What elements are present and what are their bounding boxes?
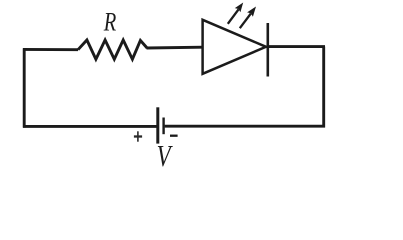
LED D1 triangle (anode) [203, 20, 266, 74]
wire right vertical [322, 47, 325, 128]
battery V short plate (negative) [162, 118, 164, 135]
svg-text:V: V [157, 139, 174, 173]
LED cathode bar [266, 23, 269, 77]
battery V long plate (positive) [156, 107, 159, 143]
svg-text:R: R [103, 8, 116, 37]
wire top-left segment [23, 48, 78, 51]
resistor R [78, 40, 147, 59]
wire bottom-right segment [165, 125, 325, 128]
battery plus label [134, 131, 142, 141]
wire left vertical [23, 48, 26, 127]
wire LED to top-right corner [268, 45, 325, 48]
wire bottom-left segment [23, 125, 157, 128]
LED light arrow 1 [228, 3, 243, 24]
LED light arrow 2 [240, 7, 256, 29]
wire resistor to LED [147, 46, 204, 50]
battery minus label [170, 135, 178, 137]
